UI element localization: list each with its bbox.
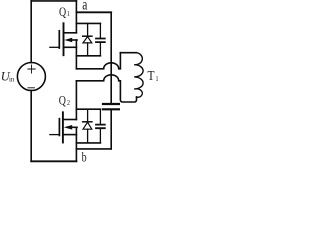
wire Q1 source rail [75, 40, 77, 69]
svg-text:in: in [9, 75, 15, 83]
wire node b horizontal [76, 148, 111, 150]
transistor Q1 gate bar [58, 31, 60, 48]
diode D2 triangle [83, 122, 92, 129]
wire hump1 crossover (Q1 source to T1 top) [76, 53, 120, 69]
transistor Q2 gate bar [58, 119, 60, 136]
transistor Q2 bulk arrow stub [72, 126, 77, 128]
wire left vertical lower [30, 91, 32, 162]
plus sign [28, 65, 35, 73]
transformer T1 winding [134, 53, 143, 98]
svg-text:Q: Q [59, 6, 66, 19]
wire Q1 snubber top [76, 22, 100, 24]
diode D1 cathode bar [83, 35, 92, 37]
diode D2 cathode bar [83, 121, 92, 123]
transistor Q1 source stub [64, 46, 77, 48]
wire series capacitor to node b [110, 110, 112, 148]
transistor Q2 gate lead [50, 134, 60, 136]
transistor Q2 arrow [64, 125, 72, 130]
wire hump2 crossover (Q2 drain to T1 bottom) [76, 75, 136, 102]
capacitor C2 plates [96, 125, 105, 129]
voltage source U_in circle [17, 63, 45, 91]
wire Q2 drain rail [75, 81, 77, 120]
transformer T1 top lead [120, 52, 136, 54]
diode D1 leads [87, 23, 89, 55]
wire bottom rail [31, 160, 76, 162]
capacitor C1 plates [96, 39, 105, 43]
wire Q2 snubber bottom / source line [76, 142, 100, 144]
svg-text:1: 1 [156, 75, 159, 83]
svg-text:1: 1 [67, 11, 70, 19]
diode D1 triangle [83, 37, 92, 43]
transistor Q1 drain stub [64, 32, 77, 34]
transistor Q1 arrow [64, 38, 72, 43]
svg-text:Q: Q [59, 95, 66, 108]
wire node a vertical to series capacitor [110, 12, 112, 103]
wire top rail [31, 0, 76, 2]
diode D2 leads [87, 109, 89, 143]
wire Q1 drain rail [75, 1, 77, 33]
svg-text:T: T [148, 68, 155, 83]
transistor Q2 channel [62, 112, 64, 142]
transistor Q1 bulk arrow stub [72, 39, 77, 41]
transistor Q2 drain stub [63, 119, 77, 121]
svg-text:b: b [82, 149, 87, 164]
transistor Q1 channel [63, 23, 65, 55]
minus sign [28, 87, 35, 89]
wire Q2 snubber top [76, 108, 100, 110]
transistor Q1 gate lead [50, 46, 59, 48]
transistor Q2 source stub [63, 134, 77, 136]
capacitor C3 series plates [103, 104, 119, 109]
wire left vertical upper [30, 1, 32, 63]
capacitor C2 leads [99, 109, 101, 143]
wire node a horizontal [76, 11, 111, 13]
wire Q1 snubber bottom / source line [76, 55, 100, 57]
capacitor C1 leads [99, 23, 101, 55]
wire Q2 source rail [75, 127, 77, 161]
svg-text:a: a [82, 0, 87, 14]
